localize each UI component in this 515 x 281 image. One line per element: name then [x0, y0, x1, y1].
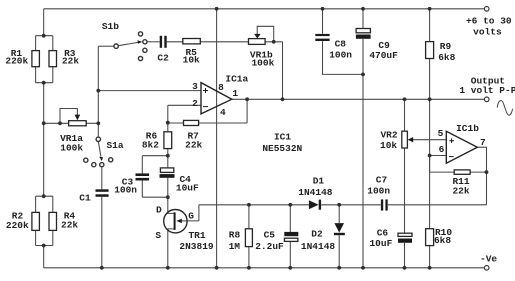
svg-text:5: 5 [438, 128, 444, 139]
svg-text:220k: 220k [5, 56, 28, 67]
svg-text:22k: 22k [185, 140, 202, 151]
svg-text:22k: 22k [61, 220, 78, 231]
svg-text:8k2: 8k2 [142, 140, 159, 151]
svg-text:VR2: VR2 [380, 129, 397, 140]
svg-text:10k: 10k [380, 140, 397, 151]
svg-text:100n: 100n [367, 186, 390, 197]
svg-text:2N3819: 2N3819 [179, 241, 214, 252]
svg-text:470uF: 470uF [369, 50, 398, 61]
svg-text:6: 6 [439, 144, 445, 155]
svg-text:C7: C7 [376, 175, 388, 186]
svg-text:22k: 22k [62, 56, 79, 67]
svg-text:G: G [188, 210, 194, 221]
svg-text:R9: R9 [440, 41, 452, 52]
svg-text:6k8: 6k8 [434, 235, 451, 246]
svg-text:IC1: IC1 [274, 132, 291, 143]
svg-text:6k8: 6k8 [438, 52, 455, 63]
svg-text:D2: D2 [311, 229, 323, 240]
svg-text:IC1b: IC1b [456, 123, 479, 134]
svg-text:3: 3 [192, 81, 198, 92]
svg-text:2.2uF: 2.2uF [255, 241, 284, 252]
svg-text:4: 4 [220, 107, 226, 118]
svg-text:1M: 1M [229, 241, 241, 252]
svg-text:C6: C6 [377, 228, 389, 239]
svg-text:100k: 100k [60, 142, 83, 153]
svg-text:100k: 100k [251, 57, 274, 68]
svg-text:8: 8 [218, 82, 224, 93]
svg-text:100n: 100n [329, 49, 352, 60]
svg-text:1N4148: 1N4148 [298, 187, 333, 198]
svg-text:220k: 220k [6, 220, 29, 231]
svg-text:100n: 100n [114, 185, 137, 196]
svg-text:S1a: S1a [106, 140, 123, 151]
svg-text:1N4148: 1N4148 [301, 241, 336, 252]
svg-text:+6 to 30: +6 to 30 [466, 15, 512, 26]
svg-text:10k: 10k [183, 55, 200, 66]
svg-text:D: D [156, 204, 162, 215]
svg-text:S: S [155, 230, 161, 241]
svg-text:TR1: TR1 [188, 230, 205, 241]
svg-text:2: 2 [192, 98, 198, 109]
svg-text:22k: 22k [452, 186, 469, 197]
svg-text:C5: C5 [264, 229, 276, 240]
svg-text:volts: volts [473, 27, 502, 38]
svg-text:C1: C1 [79, 193, 91, 204]
svg-text:S1b: S1b [102, 21, 119, 32]
svg-text:C8: C8 [335, 39, 347, 50]
svg-text:NE5532N: NE5532N [262, 143, 302, 154]
svg-text:1 volt P-P: 1 volt P-P [459, 85, 515, 96]
svg-text:7: 7 [480, 137, 486, 148]
svg-text:R8: R8 [229, 229, 241, 240]
svg-text:IC1a: IC1a [225, 73, 248, 84]
svg-text:10uF: 10uF [176, 182, 199, 193]
svg-text:D1: D1 [313, 176, 325, 187]
svg-text:C2: C2 [157, 52, 169, 63]
svg-text:10uF: 10uF [369, 238, 392, 249]
svg-text:1: 1 [232, 88, 238, 99]
svg-text:-Ve: -Ve [480, 254, 497, 265]
